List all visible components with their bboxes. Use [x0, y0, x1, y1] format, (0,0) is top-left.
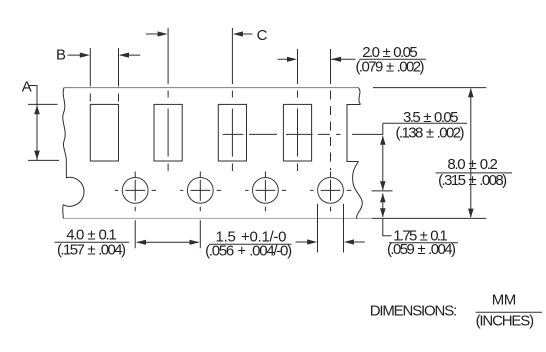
tape bottom edge: [63, 217, 372, 219]
svg-text:A: A: [22, 79, 32, 96]
center marks hole H5: [310, 172, 351, 212]
dim 2.0 leader lines: [278, 58, 356, 60]
arrowhead 1.5 left: [344, 239, 354, 244]
svg-text:(.157 ± .004): (.157 ± .004): [57, 242, 126, 259]
pocket P4: [283, 104, 311, 161]
dim A top extension line: [28, 103, 58, 105]
arrowhead 8.0 up: [468, 88, 474, 97]
dim 3.5 tick and line: [382, 123, 384, 190]
arrowhead A down: [34, 151, 40, 160]
pocket P5 partial at break: [347, 105, 360, 162]
dim 1.75 line and leader: [383, 194, 392, 236]
dim A bottom extension line: [28, 159, 59, 161]
svg-text:(.079 ± .002): (.079 ± .002): [356, 58, 425, 75]
dim C leader lines: [146, 33, 253, 35]
center marks hole H4: [245, 172, 286, 212]
pocket P1 edge extension dashes: [90, 94, 118, 102]
center marks hole H2: [115, 172, 156, 212]
svg-text:(.059 ± .004): (.059 ± .004): [387, 241, 456, 258]
tape bottom edge extension (8.0 dim): [372, 217, 486, 219]
svg-text:MM: MM: [492, 292, 517, 309]
left tape break (wavy with half sprocket hole): [63, 88, 84, 219]
horizontal pocket centerline row: [223, 133, 383, 135]
sprocket hole H3: [187, 178, 213, 204]
arrowhead A up: [34, 105, 40, 114]
tape top extension line (8.0 dim): [373, 87, 486, 89]
fraction bar 1.75: [389, 242, 458, 244]
dim 4.0 extension lines: [135, 220, 200, 248]
tape top edge: [64, 87, 358, 89]
dim 1.5 tangent extension lines: [318, 204, 344, 253]
arrowhead B right: [80, 53, 90, 58]
pocket P3 centerline: [231, 91, 233, 172]
sprocket hole H2: [122, 178, 148, 204]
dim C extension lines: [168, 28, 232, 84]
fraction bar 2.0: [359, 58, 426, 60]
fraction bar 1.5: [209, 243, 291, 245]
arrowhead 3.5 down: [380, 181, 386, 190]
arrowhead 2.0 right: [287, 57, 297, 62]
arrowhead 1.75 down: [380, 208, 386, 217]
pocket P2 centerline: [167, 91, 169, 172]
svg-text:(.056 + .004/-0): (.056 + .004/-0): [205, 243, 292, 260]
sprocket hole H4: [253, 178, 279, 204]
dim 4.0 line: [137, 241, 199, 243]
dim 1.5 leader lines: [296, 241, 365, 243]
dim B extension lines: [90, 48, 118, 87]
pocket P4 centerline: [297, 91, 299, 172]
dim 2.0 hole5 dashed centerline: [330, 91, 332, 171]
right tape break (wavy, upper part): [358, 88, 360, 105]
arrowhead B left: [119, 53, 129, 58]
svg-text:C: C: [257, 27, 268, 44]
center marks hole H3: [180, 172, 221, 212]
arrowhead 2.0 left: [331, 57, 341, 62]
svg-text:(INCHES): (INCHES): [476, 313, 534, 330]
svg-text:8.0 ± 0.2: 8.0 ± 0.2: [447, 156, 498, 173]
pocket P3: [218, 104, 246, 161]
sprocket hole H5: [318, 178, 344, 204]
arrowhead C right: [158, 31, 168, 36]
fraction bar 3.5: [383, 122, 467, 124]
dim B leader lines: [68, 54, 141, 56]
hole row extension line: [372, 190, 393, 192]
dim 8.0 line: [470, 89, 472, 218]
arrowhead 8.0 down: [468, 209, 474, 218]
svg-text:(.315 ± .008): (.315 ± .008): [438, 172, 507, 189]
dim A leader and line: [29, 86, 38, 161]
pocket P1: [90, 104, 118, 161]
right tape break (wavy, lower part): [353, 162, 363, 219]
arrowhead 1.75 up: [380, 193, 386, 202]
arrowhead C left: [233, 31, 243, 36]
arrowhead 3.5 up: [380, 136, 386, 145]
fraction bar 8.0: [436, 172, 513, 174]
fraction bar 4.0: [55, 241, 130, 243]
dim 2.0 extension lines: [298, 49, 331, 84]
fraction bar MM/(INCHES): [476, 311, 542, 313]
svg-text:(.138 ± .002): (.138 ± .002): [396, 124, 465, 141]
arrowhead 1.5 right: [307, 239, 317, 244]
svg-text:DIMENSIONS:: DIMENSIONS:: [370, 302, 458, 319]
arrowhead 4.0 right: [190, 240, 200, 245]
arrowhead 4.0 left: [136, 240, 146, 245]
pocket P2: [154, 104, 182, 161]
svg-text:B: B: [56, 47, 66, 64]
